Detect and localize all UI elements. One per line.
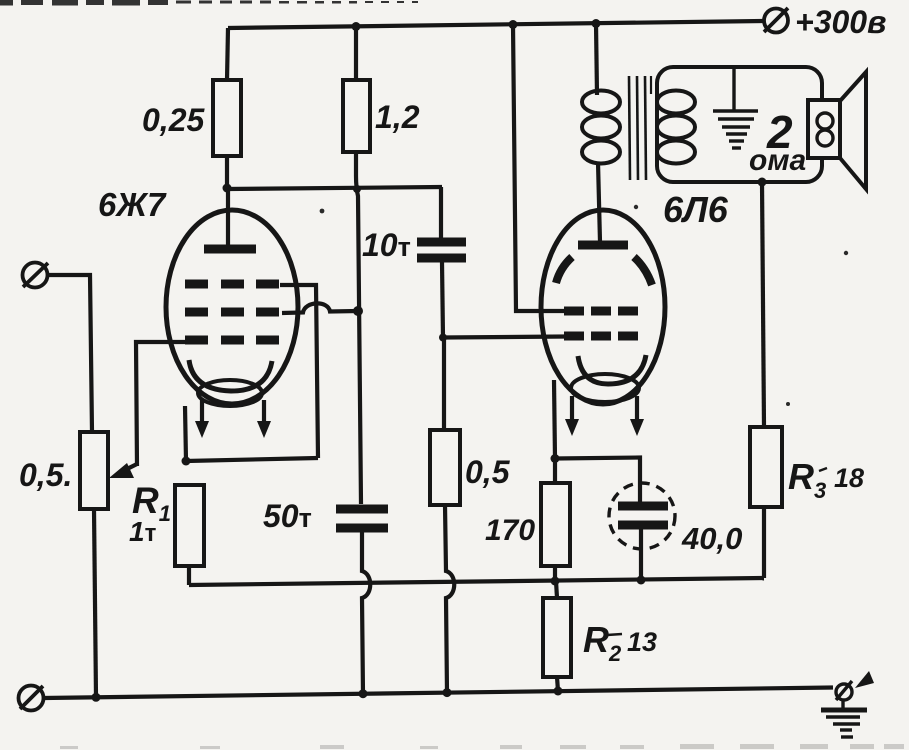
resistor R3 xyxy=(750,427,782,507)
wire pot bottom xyxy=(94,509,96,697)
ground symbol in box xyxy=(713,68,758,148)
wire grid leak stem xyxy=(442,338,446,430)
node 40,0 bias rail xyxy=(637,576,646,585)
node 0,5 ground xyxy=(443,688,452,697)
wire ground rail xyxy=(44,688,833,699)
6Л6 grid row 2 xyxy=(564,332,638,341)
node 50т ground xyxy=(359,689,368,698)
ground hatch xyxy=(821,710,867,737)
node screen junction xyxy=(353,306,363,316)
resistor 1,2 xyxy=(343,80,370,152)
node 6Л6 cathode junction xyxy=(551,454,560,463)
node 6Ж7 anode junction xyxy=(223,184,232,193)
scan noise bottom edge xyxy=(60,744,904,749)
svg-text:1т: 1т xyxy=(129,516,157,547)
svg-text:40,0: 40,0 xyxy=(681,521,742,556)
svg-text:0,25: 0,25 xyxy=(142,102,205,138)
6Л6 cathode lead arrow right xyxy=(630,396,644,436)
wire 10т to grid node xyxy=(442,262,443,338)
6Ж7 base ellipse xyxy=(198,380,262,406)
transformer secondary winding xyxy=(657,91,695,164)
resistor 0,25 xyxy=(213,80,241,156)
label R3 tick xyxy=(819,468,827,471)
wire 0,25 top stem xyxy=(227,28,228,80)
capacitor 10т xyxy=(417,242,466,258)
wire R2 bottom stem xyxy=(557,677,558,691)
svg-text:50т: 50т xyxy=(263,498,312,534)
node 1,2 top on rail xyxy=(352,22,361,31)
transformer core xyxy=(629,76,651,180)
node 6Ж7 cathode junction xyxy=(182,457,191,466)
6Л6 cathode arc xyxy=(578,355,646,384)
wire 10т feed xyxy=(439,187,443,238)
svg-text:13: 13 xyxy=(627,627,657,657)
scan noise top edge xyxy=(0,0,418,6)
node secondary to R3 xyxy=(758,178,767,187)
6Л6 cathode lead arrow left xyxy=(565,396,579,436)
wire anode node rail xyxy=(227,187,442,189)
terminal +300V circle xyxy=(764,8,788,33)
6Ж7 grid row 3 xyxy=(185,336,279,345)
wire +300V top rail xyxy=(228,21,763,28)
label R2 dash xyxy=(607,634,622,635)
svg-text:18: 18 xyxy=(834,463,864,493)
svg-text:6Л6: 6Л6 xyxy=(663,189,729,230)
tube 6Л6 xyxy=(541,162,665,436)
capacitor 40,0 electrolytic circle xyxy=(609,483,675,549)
wire 6Л6 cathode stem xyxy=(554,380,555,459)
wire 170 bottom stem xyxy=(553,566,557,582)
terminal chassis ground xyxy=(836,681,852,700)
node pot ground xyxy=(92,693,101,702)
wire 6Ж7 screen with hop over suppressor xyxy=(282,303,358,313)
wire 6Ж7 cathode stem xyxy=(185,406,186,461)
6Л6 beam plate right xyxy=(634,257,652,285)
svg-text:10т: 10т xyxy=(362,227,411,263)
svg-text:0,5: 0,5 xyxy=(465,454,511,490)
node 1,2 bottom junction xyxy=(353,185,361,193)
speaker cone xyxy=(840,72,866,189)
svg-text:+300в: +300в xyxy=(795,4,886,40)
svg-text:170: 170 xyxy=(485,514,535,547)
wire cathode link xyxy=(186,458,318,461)
6Л6 base ellipse xyxy=(571,374,639,402)
wire 1,2 bottom down to 50т xyxy=(356,152,361,504)
6Ж7 anode stem xyxy=(226,189,230,246)
wire box to R3 xyxy=(762,182,764,427)
svg-text:0,5.: 0,5. xyxy=(19,457,72,493)
node R2 ground rail xyxy=(554,687,563,696)
wire 6Л6 control grid xyxy=(443,337,566,338)
scan specks xyxy=(320,205,849,406)
terminal input xyxy=(23,263,49,288)
wire input to potentiometer xyxy=(47,275,92,432)
ground stem xyxy=(841,700,844,709)
wire cathode to bypass cap xyxy=(555,458,640,504)
6Л6 anode plate xyxy=(578,241,628,250)
potentiometer wiper arrow xyxy=(109,463,137,478)
terminal bottom left xyxy=(19,686,44,711)
6Л6 anode stem xyxy=(598,162,600,242)
6Ж7 cathode lead arrow left xyxy=(195,400,209,438)
wire 170 top stem xyxy=(553,459,557,485)
6Ж7 grid row 1 xyxy=(185,280,279,289)
6Л6 beam plate left xyxy=(556,257,572,283)
wire 40,0 bottom stem xyxy=(639,529,643,580)
svg-text:1,2: 1,2 xyxy=(375,99,420,135)
wire 0,25 bottom stem xyxy=(225,156,229,190)
ground arrow mark xyxy=(855,671,874,688)
speaker coil xyxy=(817,113,833,146)
6Ж7 cathode arc xyxy=(189,360,272,391)
transformer primary winding xyxy=(582,91,620,164)
node screen tap on rail xyxy=(509,20,518,29)
wire control grid to wiper xyxy=(136,342,190,466)
node 6Л6 grid junction xyxy=(439,334,447,342)
node 170 bias rail xyxy=(551,577,560,586)
resistor R1 xyxy=(175,485,204,566)
6Ж7 anode plate xyxy=(204,245,256,254)
wire 1,2 top stem xyxy=(354,27,358,81)
wire R3 bottom xyxy=(762,507,766,578)
6Л6 grid row 1 xyxy=(564,307,638,316)
6Ж7 envelope xyxy=(166,210,298,404)
tube 6Ж7 xyxy=(166,189,298,438)
wire R2 top stem xyxy=(556,581,557,598)
resistor R2 xyxy=(543,598,571,677)
wire 0,5 bottom with hop over bias rail xyxy=(445,505,454,693)
wire bias rail xyxy=(189,578,764,585)
resistor 170 xyxy=(541,483,570,566)
6Ж7 grid row 2 xyxy=(185,308,279,317)
resistor 0,5 grid leak xyxy=(430,430,460,505)
capacitor 40,0 plates xyxy=(618,506,668,525)
speaker driver xyxy=(808,100,840,158)
node transformer top on rail xyxy=(592,19,601,28)
transformer primary wire top xyxy=(596,24,597,96)
6Л6 envelope xyxy=(541,210,665,404)
capacitor 50т xyxy=(336,509,388,528)
6Ж7 cathode lead arrow right xyxy=(257,400,271,438)
secondary load box xyxy=(657,67,822,182)
potentiometer 0,5 xyxy=(80,432,108,509)
wire 50т bottom with hop over bias rail xyxy=(362,532,370,694)
svg-text:6Ж7: 6Ж7 xyxy=(98,186,167,223)
wire 6Ж7 suppressor to cathode xyxy=(280,285,318,458)
wire 6Л6 screen feed xyxy=(513,25,566,312)
wire R1 bottom xyxy=(187,566,191,585)
svg-text:ома: ома xyxy=(749,144,806,177)
